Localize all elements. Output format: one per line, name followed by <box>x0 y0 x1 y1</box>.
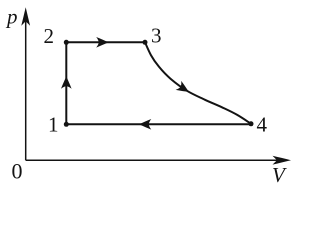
wire: process 2-3 (isobaric right) <box>66 41 145 43</box>
p axis (vertical) <box>25 12 27 160</box>
node 2 <box>64 40 69 45</box>
node 4 <box>249 121 254 126</box>
svg-text:p: p <box>5 5 18 29</box>
svg-text:3: 3 <box>151 24 162 48</box>
wire: process 1-2 (isochoric up) <box>65 42 67 124</box>
wire: process 4-1 (isobaric left) <box>66 123 251 125</box>
arrow on 2-3 <box>96 37 109 48</box>
arrow on 4-1 <box>139 119 152 130</box>
wire: process 3-4 (expansion curve) <box>145 42 251 124</box>
arrow on 1-2 <box>61 76 72 89</box>
svg-text:V: V <box>272 163 287 187</box>
node 1 <box>64 122 69 127</box>
V axis (horizontal) <box>26 159 287 161</box>
node 3 <box>143 40 148 45</box>
svg-text:4: 4 <box>257 113 268 137</box>
V axis arrowhead <box>273 156 292 165</box>
arrow on 3-4 <box>176 81 192 97</box>
svg-text:1: 1 <box>48 113 59 137</box>
p axis arrowhead <box>21 7 30 26</box>
svg-text:0: 0 <box>12 159 23 184</box>
svg-text:2: 2 <box>44 24 55 48</box>
